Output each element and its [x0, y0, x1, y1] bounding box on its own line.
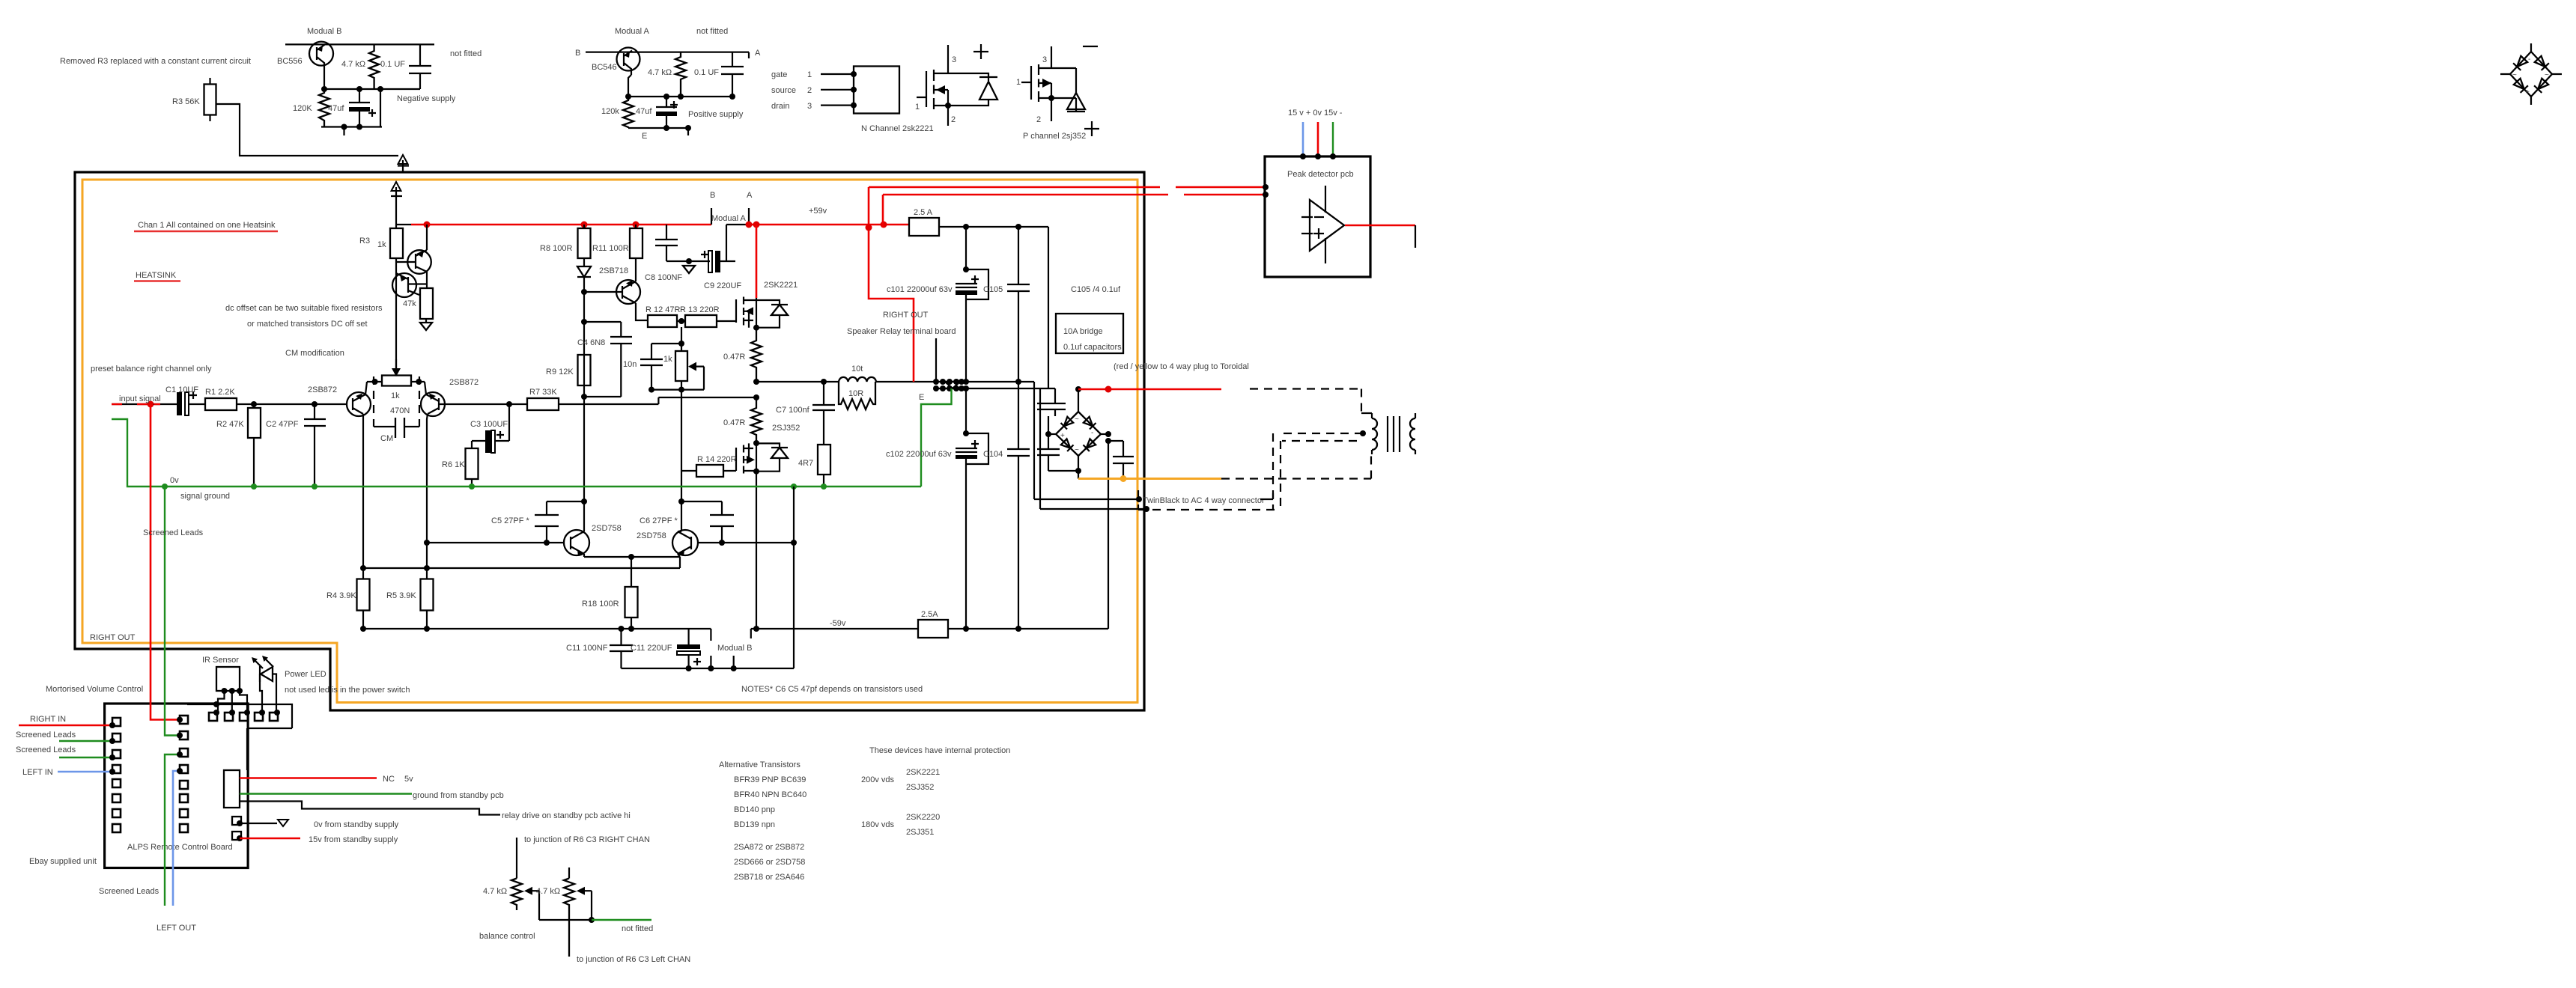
- capacitor plates: [610, 337, 632, 344]
- wire segment: [965, 459, 967, 629]
- pot 1k vertical: [675, 351, 687, 381]
- svg-text:BC556: BC556: [277, 57, 303, 66]
- wire relay row2: [966, 388, 1146, 509]
- capacitor 10n: [651, 344, 681, 390]
- wire segment: [471, 479, 473, 487]
- svg-text:gate: gate: [771, 70, 787, 79]
- op-amp U1: [1310, 200, 1344, 251]
- svg-text:R1 2.2K: R1 2.2K: [205, 388, 235, 397]
- transistor 2SB718: [616, 280, 640, 304]
- resistor R18 100R: [631, 557, 632, 587]
- svg-text:Peak detector pcb: Peak detector pcb: [1287, 170, 1354, 179]
- junction dots: [1075, 468, 1081, 474]
- wire segment: [240, 838, 300, 840]
- fuse 2.5A lower: [918, 620, 948, 638]
- svg-text:Negative supply: Negative supply: [397, 94, 456, 103]
- svg-text:4.7 kΩ: 4.7 kΩ: [341, 60, 365, 69]
- wire output row: [756, 381, 936, 382]
- svg-text:R8 100R: R8 100R: [540, 244, 572, 253]
- channel bar + stubs: [1038, 64, 1039, 102]
- wire segment: [635, 225, 637, 228]
- svg-text:to junction of R6 C3 Left CHA: to junction of R6 C3 Left CHAN: [577, 955, 690, 964]
- wire segment: [278, 820, 288, 826]
- wire segment: [743, 445, 744, 474]
- wire not fitted green: [592, 919, 651, 921]
- capacitor C11 220UF: [687, 629, 689, 644]
- wire segment: [1056, 412, 1101, 456]
- polarity + mark: [670, 101, 678, 109]
- Modual B stubs: [711, 656, 733, 668]
- wire 0v red: [1317, 122, 1319, 156]
- wire 15v- green: [1332, 122, 1334, 156]
- junction dots: [251, 401, 257, 407]
- svg-text:1: 1: [915, 103, 920, 112]
- wire segment: [260, 674, 276, 713]
- diode bl: [1061, 439, 1074, 451]
- arrowhead: [747, 456, 755, 464]
- wire segment: [1260, 493, 1273, 499]
- resistor 4R7: [818, 445, 830, 475]
- preset pot 1k: [382, 376, 411, 386]
- diode tr: [1084, 417, 1096, 430]
- svg-text:47k: 47k: [403, 299, 416, 308]
- capacitor plates: [956, 448, 977, 452]
- wire NC 5v red: [240, 777, 377, 779]
- capacitor 0.1 UF (Modual A): [732, 52, 733, 97]
- wire segment: [209, 713, 217, 721]
- svg-text:R2 47K: R2 47K: [216, 420, 244, 429]
- wire from R3 to arrow: [216, 104, 399, 156]
- wire right vertical from rail: [1048, 227, 1049, 388]
- arrowhead: [577, 550, 584, 557]
- svg-text:0.1 UF: 0.1 UF: [380, 60, 405, 69]
- arrowhead: [524, 887, 532, 895]
- wire segment: [965, 295, 967, 382]
- svg-text:R3: R3: [359, 237, 370, 246]
- svg-text:2.5 A: 2.5 A: [914, 208, 933, 217]
- wire segment: [564, 879, 574, 957]
- junction dots: [648, 387, 654, 393]
- svg-text:Modual B: Modual B: [307, 27, 341, 36]
- svg-text:Speaker Relay terminal board: Speaker Relay terminal board: [847, 327, 956, 336]
- wire 15v+ blue: [1302, 122, 1304, 156]
- svg-text:C105 /4 0.1uf: C105 /4 0.1uf: [1071, 285, 1121, 294]
- wire segment: [395, 418, 404, 438]
- svg-text:C1 10UF: C1 10UF: [165, 385, 198, 394]
- wire segment: [720, 260, 735, 262]
- junction dots: [625, 94, 631, 100]
- junction dots: [360, 565, 366, 571]
- wire segment: [681, 344, 682, 390]
- wire emitter row: [584, 557, 680, 568]
- svg-text:2SB872: 2SB872: [308, 385, 337, 394]
- wire segment: [656, 106, 677, 108]
- plus mark: [973, 44, 988, 59]
- diode bottom-right: [2534, 78, 2549, 93]
- svg-text:C6 27PF *: C6 27PF *: [640, 516, 678, 525]
- wire segment: [1108, 441, 1123, 457]
- wire segment: [491, 430, 495, 453]
- svg-text:R18 100R: R18 100R: [582, 600, 619, 609]
- svg-text:47uf: 47uf: [328, 104, 344, 113]
- minus mark: [1083, 46, 1098, 47]
- resistor 4.7 kOhm (Modual B): [369, 44, 379, 89]
- wire source pin 2: [821, 89, 854, 91]
- transistor Q3 2SD758 left: [564, 530, 589, 555]
- transformer T1: [1361, 413, 1372, 418]
- wire segment: [1325, 186, 1326, 263]
- wire green from 0v: [165, 487, 180, 736]
- svg-text:Chan 1 All contained on one: Chan 1 All contained on one Heatsink: [138, 221, 276, 230]
- svg-text:4.7 kΩ: 4.7 kΩ: [648, 68, 672, 77]
- wire bridge left branch: [1048, 433, 1056, 435]
- svg-text:relay drive on standby pcb act: relay drive on standby pcb active hi: [502, 811, 631, 820]
- capacitor 47uf (Modual A): [666, 97, 667, 106]
- svg-text:A: A: [755, 49, 761, 58]
- wire segment: [1371, 450, 1373, 454]
- bottom row Modual A: [628, 128, 688, 135]
- wire segment: [579, 891, 592, 920]
- svg-text:dc offset can be two suitable: dc offset can be two suitable fixed resi…: [225, 304, 383, 313]
- svg-text:C5 27PF *: C5 27PF *: [491, 516, 529, 525]
- svg-text:Alternative Transistors: Alternative Transistors: [719, 760, 801, 769]
- junction dots: [424, 540, 430, 546]
- capacitor plates: [812, 405, 835, 410]
- wire ground from standby green: [240, 793, 412, 794]
- wire segment: [1048, 416, 1078, 471]
- wire screened green 2: [59, 757, 112, 758]
- resistor 4.7 kOhm (Modual A): [675, 52, 686, 97]
- wire link right side: [380, 89, 381, 127]
- junction dots: [424, 222, 431, 228]
- header bus: [187, 704, 292, 770]
- svg-text:C7 100nf: C7 100nf: [776, 406, 810, 415]
- svg-text:180v vds: 180v vds: [861, 820, 895, 829]
- svg-text:R6 1K: R6 1K: [442, 460, 465, 469]
- wire segment: [756, 443, 757, 472]
- capacitor C4 6N8 branch: [584, 322, 621, 397]
- resistor 47k: [420, 288, 433, 319]
- junction dots: [963, 266, 969, 272]
- wire segment: [425, 382, 446, 568]
- inductor 10t: [839, 377, 876, 382]
- wire output stub: [1415, 225, 1416, 248]
- wire segment: [625, 587, 638, 617]
- capacitor 0.1 UF (Modual B, not fitted): [419, 44, 421, 89]
- svg-text:2: 2: [807, 86, 812, 95]
- svg-text:2SD758: 2SD758: [592, 524, 622, 533]
- wire segment: [945, 382, 960, 388]
- svg-text:10n: 10n: [623, 360, 637, 369]
- wire segment: [756, 298, 757, 328]
- wire screened green 1: [59, 740, 112, 742]
- wire segment: [979, 82, 997, 100]
- svg-text:10t: 10t: [851, 365, 863, 373]
- polarity + mark: [971, 440, 979, 448]
- source+body join: [947, 90, 949, 126]
- diode br: [1084, 439, 1096, 451]
- wire 2SK2221 drain red: [756, 225, 758, 298]
- svg-text:Mortorised Volume Control: Mortorised Volume Control: [46, 685, 143, 694]
- wire top rail Modual B: [285, 43, 434, 45]
- svg-text:balance control: balance control: [479, 932, 535, 941]
- wire segment: [939, 226, 1048, 228]
- wire Q1 base/emitter/collector: [396, 250, 427, 272]
- wire segment: [112, 718, 121, 726]
- junction dots: [1015, 379, 1021, 385]
- svg-text:R 12 47R: R 12 47R: [645, 305, 681, 314]
- wire segment: [426, 568, 428, 629]
- red feed wires with break: [869, 187, 1266, 195]
- junction dots: [1105, 431, 1111, 437]
- svg-text:C2 47PF: C2 47PF: [266, 420, 299, 429]
- arrowhead: [745, 307, 753, 315]
- wire segment: [1051, 83, 1052, 121]
- polarity + mark: [189, 391, 197, 399]
- gate lead: [917, 71, 926, 107]
- resistor 0.47R upper: [751, 328, 762, 382]
- 10A bridge note box: [1056, 314, 1123, 353]
- svg-text:not used led is in the power: not used led is in the power switch: [285, 686, 410, 695]
- transistor Q2 2SB872 right: [421, 392, 445, 416]
- svg-text:ground from standby pcb: ground from standby pcb: [413, 791, 504, 800]
- svg-text:C11 100NF: C11 100NF: [566, 644, 608, 653]
- wire segment: [248, 408, 261, 438]
- svg-text:N Channel 2sk2221: N Channel 2sk2221: [861, 124, 934, 133]
- wire segment: [2510, 52, 2552, 97]
- junction dots: [581, 498, 587, 504]
- wire 0v green rail: [112, 419, 921, 487]
- svg-text:1: 1: [1016, 78, 1021, 87]
- svg-text:C9 220UF: C9 220UF: [704, 281, 741, 290]
- wire segment: [511, 879, 522, 911]
- resistor 120K (Modual B): [319, 89, 329, 127]
- svg-text:0v: 0v: [170, 476, 179, 485]
- wire c101 branch: [965, 227, 967, 269]
- svg-text:Positive supply: Positive supply: [688, 110, 744, 119]
- wire segment: [395, 216, 397, 374]
- junction dots: [753, 325, 759, 331]
- svg-text:2: 2: [1036, 115, 1041, 124]
- svg-text:CM: CM: [380, 434, 393, 443]
- svg-text:C104: C104: [983, 450, 1003, 459]
- wire segment: [1372, 418, 1377, 450]
- ground: [420, 323, 432, 330]
- junction dots: [628, 554, 634, 560]
- wire segment: [367, 381, 425, 382]
- wire segment: [1067, 93, 1085, 109]
- speaker relay terminal board: [935, 338, 937, 382]
- arrowhead: [577, 887, 585, 895]
- wire segment: [966, 433, 988, 464]
- wire RIGHT OUT red: [869, 187, 914, 382]
- wire 47k bottom lead: [425, 319, 427, 323]
- wire pot bottom row: [651, 388, 704, 390]
- svg-text:LEFT IN: LEFT IN: [22, 768, 53, 777]
- capacitor plates: [610, 645, 633, 651]
- arrowhead: [416, 251, 424, 258]
- wire segment: [666, 116, 667, 128]
- diode bottom-left: [2513, 78, 2528, 93]
- wire bottom 0v return row: [622, 487, 795, 668]
- node row Modual A: [628, 96, 732, 97]
- svg-text:5v: 5v: [404, 775, 413, 784]
- wire Q2 base/emitter/collector: [396, 273, 427, 295]
- arrowhead: [936, 85, 945, 94]
- wire segment: [395, 359, 397, 374]
- resistor R3 1k: [390, 228, 403, 258]
- arrowhead: [349, 107, 370, 112]
- svg-text:2: 2: [951, 115, 956, 124]
- wire C8 to ground/C9: [666, 260, 710, 262]
- resistor R8 100R: [578, 228, 591, 258]
- wire input signal: [112, 403, 177, 405]
- svg-text:BFR40 NPN BC640: BFR40 NPN BC640: [734, 790, 806, 799]
- svg-text:RIGHT OUT: RIGHT OUT: [90, 633, 136, 642]
- junction dots: [162, 484, 168, 490]
- capacitor plates: [304, 419, 326, 426]
- svg-text:0v from standby supply: 0v from standby supply: [314, 820, 399, 829]
- junction dots: [213, 701, 219, 707]
- junction dots: [933, 385, 939, 391]
- svg-text:to junction of R6 C3 RIGHT CHA: to junction of R6 C3 RIGHT CHAN: [524, 835, 650, 844]
- wire segment: [583, 225, 585, 266]
- wire segment: [823, 475, 824, 487]
- capacitor plates: [640, 359, 663, 365]
- svg-text:~: ~: [1075, 415, 1079, 424]
- svg-text:C8 100NF: C8 100NF: [645, 273, 682, 282]
- junction dots: [581, 319, 587, 325]
- junction dots: [372, 379, 378, 385]
- polarity + mark: [971, 275, 979, 283]
- svg-text:BFR39 PNP BC639: BFR39 PNP BC639: [734, 775, 806, 784]
- arrowhead: [625, 52, 630, 58]
- transistor Q1 CCS upper: [407, 250, 431, 274]
- wire Q1 collector feed: [426, 225, 428, 288]
- junction dots: [678, 498, 684, 504]
- junction dots: [1048, 95, 1054, 101]
- capacitor 0.1uf top (bridge): [1037, 403, 1066, 409]
- wire segment: [426, 394, 439, 414]
- svg-text:E: E: [919, 393, 924, 402]
- wire segment: [1410, 418, 1415, 450]
- main enclosure black border: [75, 172, 1144, 710]
- wire segment: [628, 75, 631, 97]
- node row: [324, 88, 420, 90]
- wire C9 bypass: [726, 225, 749, 261]
- capacitor C6 27PF: [681, 501, 722, 543]
- svg-text:BD140 pnp: BD140 pnp: [734, 805, 775, 814]
- svg-text:Screened Leads: Screened Leads: [99, 887, 160, 896]
- transistor Q2 CCS lower: [392, 273, 416, 297]
- svg-text:IR Sensor: IR Sensor: [202, 656, 239, 665]
- junction dots: [821, 379, 827, 385]
- wire left in blue: [58, 771, 112, 773]
- arrowhead: [678, 550, 684, 557]
- header pads: [209, 713, 278, 721]
- pad 0v: [232, 817, 241, 825]
- junction dots: [866, 225, 872, 231]
- junction dots: [678, 318, 684, 324]
- junction dots: [1075, 386, 1081, 392]
- svg-text:3: 3: [952, 55, 956, 64]
- polarity + mark: [701, 251, 708, 258]
- wire segment: [771, 304, 788, 305]
- svg-text:not fitted: not fitted: [622, 924, 653, 933]
- junction dots: [933, 379, 939, 385]
- power arrow (inside border, to R3 1k): [391, 187, 402, 216]
- polarity + mark: [368, 109, 376, 117]
- drain lead up: [947, 45, 949, 73]
- resistor R4 3.9K: [357, 579, 370, 611]
- svg-text:(red / yellow to 4 way plug to: (red / yellow to 4 way plug to Toroidal: [1114, 362, 1249, 371]
- wire segment: [979, 76, 997, 78]
- wire segment: [1314, 216, 1324, 218]
- junction dots: [506, 401, 512, 407]
- wire segment: [583, 501, 585, 557]
- junction dots: [686, 665, 692, 671]
- wire segment: [631, 617, 632, 629]
- svg-text:BC546: BC546: [592, 63, 617, 72]
- bottom row Modual B: [321, 127, 382, 136]
- wire bridge right branch: [1101, 433, 1108, 435]
- junction dots: [1300, 153, 1306, 159]
- capacitor C7 100nf: [823, 382, 824, 445]
- body diode: [1051, 68, 1076, 112]
- svg-text:B: B: [710, 191, 715, 200]
- arrowhead: [262, 656, 268, 662]
- arrowhead: [956, 455, 977, 459]
- junction dots: [686, 258, 692, 264]
- resistor R 13 220R: [685, 315, 717, 327]
- svg-text:-59v: -59v: [830, 619, 846, 628]
- wire segment: [189, 403, 205, 405]
- wire segment: [398, 155, 408, 164]
- svg-text:BD139 npn: BD139 npn: [734, 820, 775, 829]
- junction dots: [237, 835, 243, 841]
- channel bar + stubs: [933, 70, 935, 109]
- svg-text:+: +: [1060, 432, 1065, 440]
- power arrow (above border): [398, 160, 409, 173]
- arrowhead: [252, 657, 258, 663]
- svg-text:4.7 kΩ: 4.7 kΩ: [536, 887, 560, 896]
- svg-text:2.5A: 2.5A: [921, 610, 938, 619]
- wire segment: [744, 443, 756, 471]
- arrowhead: [688, 362, 696, 371]
- resistor R1 2.2K: [205, 398, 237, 410]
- wire segment: [237, 403, 347, 405]
- junction dots: [321, 86, 327, 92]
- wire segment: [743, 297, 744, 326]
- resistor R 14 220R: [696, 465, 723, 477]
- capacitor C8 100NF: [666, 225, 667, 261]
- capacitor C11 100NF: [620, 629, 622, 668]
- capacitor c102 22000uf 63v: [965, 388, 967, 433]
- board outline: [105, 704, 249, 868]
- svg-text:P channel 2sj352: P channel 2sj352: [1023, 132, 1086, 141]
- wire segment: [771, 448, 788, 458]
- transistor BC556: [309, 42, 333, 66]
- svg-text:RIGHT OUT: RIGHT OUT: [883, 311, 929, 320]
- junction dots: [581, 289, 587, 295]
- wire segment: [180, 716, 188, 724]
- svg-text:R11 100R: R11 100R: [592, 244, 629, 253]
- svg-text:NC: NC: [383, 775, 395, 784]
- svg-text:2SJ352: 2SJ352: [772, 424, 800, 433]
- junction dots: [1263, 184, 1269, 190]
- body diode D2: [756, 300, 780, 328]
- arrowhead: [485, 430, 490, 453]
